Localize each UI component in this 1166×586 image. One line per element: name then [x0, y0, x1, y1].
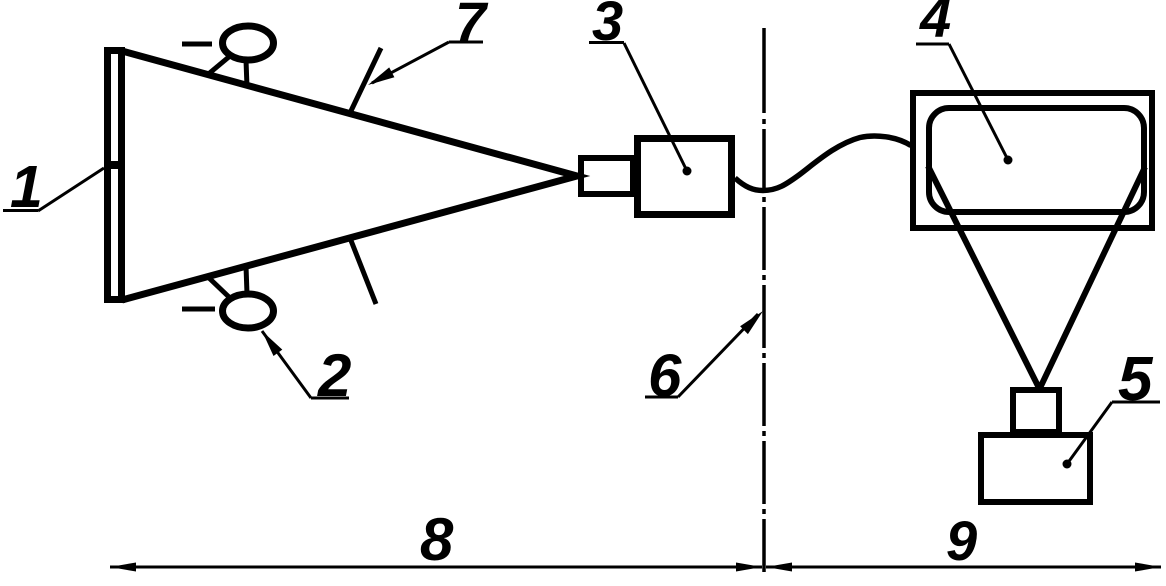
svg-text:5: 5	[1118, 345, 1154, 414]
svg-text:7: 7	[455, 0, 489, 53]
svg-text:3: 3	[592, 0, 623, 52]
svg-text:2: 2	[317, 342, 351, 409]
svg-text:6: 6	[648, 342, 682, 409]
svg-text:9: 9	[946, 509, 977, 572]
svg-text:8: 8	[420, 506, 454, 573]
svg-text:4: 4	[919, 0, 951, 49]
svg-text:1: 1	[10, 154, 43, 220]
